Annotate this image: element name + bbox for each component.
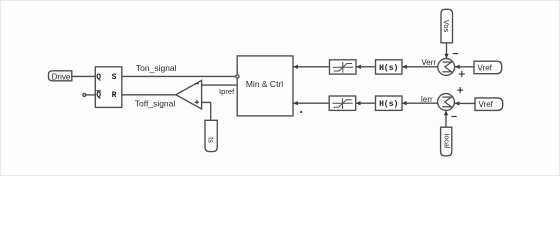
svg-text:Vref: Vref — [478, 63, 493, 72]
svg-text:Drive: Drive — [52, 72, 71, 81]
svg-text:ts: ts — [207, 137, 216, 143]
svg-text:Vref: Vref — [479, 100, 494, 109]
svg-text:Verr: Verr — [421, 58, 436, 67]
svg-text:Vos: Vos — [442, 20, 451, 33]
svg-text:Ipref: Ipref — [219, 87, 235, 96]
svg-text:Toff_signal: Toff_signal — [135, 99, 176, 109]
svg-text:S: S — [112, 73, 117, 82]
svg-text:Q: Q — [96, 73, 101, 82]
svg-text:H(s): H(s) — [379, 64, 398, 73]
svg-text:Iocal: Iocal — [443, 134, 450, 149]
svg-text:Min & Ctrl: Min & Ctrl — [246, 79, 283, 89]
svg-text:R: R — [112, 91, 117, 100]
svg-text:Ierr: Ierr — [421, 95, 433, 104]
svg-text:Ton_signal: Ton_signal — [136, 63, 177, 73]
svg-text:H(s): H(s) — [379, 100, 398, 109]
svg-text:Q: Q — [96, 91, 101, 100]
